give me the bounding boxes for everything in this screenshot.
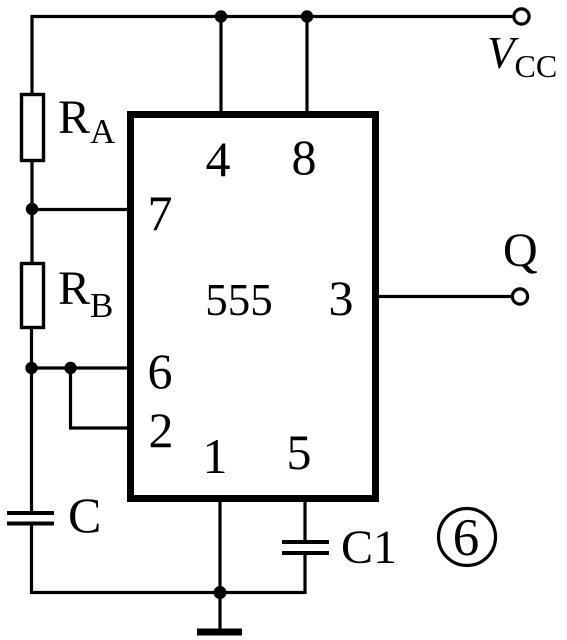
svg-text:5: 5 (287, 424, 312, 480)
svg-text:7: 7 (148, 185, 173, 241)
wire pin 3 output lead (376, 295, 512, 298)
capacitor C plate bottom (7, 522, 54, 526)
node Vcc rail pin4 (215, 10, 227, 22)
node junction RB-C-pin6 (25, 362, 37, 374)
ground (197, 592, 242, 636)
wire left rail top segment (30, 15, 33, 95)
svg-text:8: 8 (292, 129, 317, 185)
wire RB to lower node (30, 327, 33, 370)
wire Vcc top rail (31, 15, 514, 18)
wire pin 8 lead (305, 17, 308, 113)
wire pin 6 lead (32, 366, 132, 369)
node junction pin6-pin2 branch (64, 362, 76, 374)
svg-text:2: 2 (149, 402, 174, 458)
svg-text:6: 6 (148, 343, 173, 399)
svg-text:C: C (68, 487, 101, 543)
wire pin 5 lead (303, 500, 306, 541)
capacitor C plate top (7, 511, 54, 515)
wire pin 1 lead (218, 500, 221, 593)
node junction RA-RB-pin7 (26, 203, 38, 215)
resistor RA (22, 95, 44, 161)
wire C1 to ground rail (303, 553, 306, 594)
svg-text:1: 1 (203, 428, 228, 484)
svg-text:3: 3 (329, 270, 354, 326)
figure number circle 6 (439, 509, 496, 568)
wire C to ground rail (30, 525, 33, 594)
capacitor C1 plate top (282, 540, 329, 544)
terminal Q (512, 289, 527, 304)
resistor RB (22, 264, 44, 328)
wire RA to RB (30, 160, 33, 264)
svg-text:4: 4 (206, 131, 231, 187)
wire pin 2 branch vertical (69, 368, 72, 428)
node Vcc rail pin8 (301, 10, 313, 22)
wire pin 7 lead (32, 208, 131, 211)
svg-text:555: 555 (205, 275, 273, 325)
node ground junction (214, 586, 227, 599)
wire pin 2 lead (69, 426, 131, 429)
capacitor C1 plate bottom (282, 551, 329, 555)
wire pin 4 lead (219, 17, 222, 113)
svg-text:6: 6 (453, 509, 480, 567)
svg-text:Q: Q (503, 224, 538, 277)
terminal Vcc (514, 9, 529, 24)
svg-text:C1: C1 (341, 521, 397, 574)
wire node to capacitor C (30, 368, 33, 512)
IC 555 box (131, 115, 376, 499)
wire bottom ground rail (30, 591, 305, 594)
